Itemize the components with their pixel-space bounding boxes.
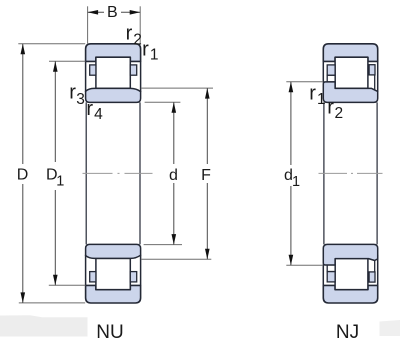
svg-text:B: B	[107, 4, 118, 21]
F extension line bottom	[141, 258, 212, 260]
inner ring NJ top	[323, 82, 377, 103]
D1 extension line top	[49, 60, 85, 62]
NJ top section	[323, 44, 377, 92]
d extension line top	[145, 101, 181, 103]
gray blob left	[0, 315, 88, 336]
gray blob right	[380, 320, 400, 336]
svg-text:r: r	[327, 97, 334, 119]
d1 arrow down	[289, 255, 294, 266]
svg-text:NU: NU	[96, 322, 123, 343]
svg-text:4: 4	[94, 106, 103, 123]
d1 extension line top	[286, 81, 323, 83]
bore line left	[85, 102, 87, 244]
d arrow up	[172, 102, 177, 113]
svg-text:r: r	[86, 98, 93, 120]
F arrow down	[205, 249, 210, 260]
svg-text:r: r	[309, 83, 316, 105]
svg-text:r: r	[69, 81, 76, 103]
B extension line left	[87, 6, 89, 43]
F dimension line upper segment	[206, 88, 208, 164]
inner ring NJ bottom	[323, 244, 377, 265]
D1 dimension line upper segment	[54, 61, 56, 162]
d extension line bottom	[144, 244, 182, 246]
B dimension line left segment	[88, 11, 104, 13]
centerline NU	[83, 172, 153, 174]
d1 extension line bottom	[286, 264, 323, 266]
centerline NJ	[319, 172, 383, 174]
D dimension line lower segment	[22, 184, 24, 303]
F arrow up	[205, 88, 210, 99]
D extension line top	[18, 43, 85, 45]
svg-text:NJ: NJ	[336, 322, 359, 343]
bore line right NJ	[376, 102, 378, 244]
B extension line right	[139, 6, 141, 43]
NU bottom section (mirrored)	[86, 244, 141, 303]
svg-text:1: 1	[317, 91, 326, 108]
d dimension line lower segment	[173, 183, 175, 245]
svg-text:2: 2	[133, 31, 142, 48]
pocket border line top	[374, 75, 376, 90]
D arrow up	[21, 44, 26, 55]
NU top section	[86, 44, 141, 103]
d dimension line upper segment	[173, 102, 175, 164]
B arrow right	[130, 10, 141, 15]
B dimension line right segment	[121, 11, 140, 13]
D1 arrow down	[53, 275, 58, 286]
D dimension line upper segment	[22, 44, 24, 164]
bore line left NJ	[323, 102, 325, 244]
bore line right	[139, 102, 141, 244]
svg-text:F: F	[201, 167, 211, 184]
svg-text:D: D	[17, 167, 29, 184]
F dimension line lower segment	[206, 183, 208, 259]
F extension line top	[141, 87, 213, 89]
d1 dimension line lower segment	[290, 186, 292, 265]
d arrow down	[172, 234, 177, 245]
svg-text:1: 1	[56, 174, 64, 190]
D extension line bottom	[19, 302, 85, 304]
D arrow down	[21, 292, 26, 303]
svg-text:r: r	[126, 22, 133, 44]
svg-text:1: 1	[292, 174, 300, 190]
D1 arrow up	[53, 61, 58, 71]
D1 dimension line lower segment	[54, 190, 56, 285]
B arrow left	[88, 10, 99, 15]
svg-text:1: 1	[150, 47, 159, 64]
svg-text:d: d	[169, 167, 178, 184]
svg-text:2: 2	[335, 105, 344, 122]
svg-text:3: 3	[76, 91, 85, 108]
D1 extension line bottom	[49, 284, 86, 286]
svg-text:r: r	[142, 38, 149, 60]
pocket border line bottom	[374, 260, 376, 272]
d1 dimension line upper segment	[290, 82, 292, 165]
NJ bottom section (mirrored common)	[323, 255, 377, 303]
d1 arrow up	[289, 82, 294, 93]
